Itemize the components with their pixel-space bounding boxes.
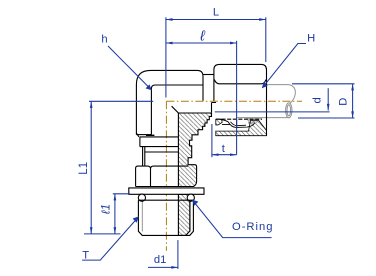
ferrule / sleeve curves [216,119,262,127]
arrowheads [90,18,354,269]
L dim [165,17,167,97]
H arrow [262,82,268,88]
svg-text:ℓ1: ℓ1 [101,204,113,215]
svg-text:ℓ: ℓ [199,29,205,45]
hatched nut band + wedge (horizontal branch lower) [216,119,267,136]
d1 arrow [171,266,178,269]
D arrows [351,84,354,91]
centerline horizontal [166,100,302,102]
d dim [215,111,330,113]
hatched body section right of vertical bore [178,113,211,187]
o-rings [138,194,145,201]
L arrows [166,18,173,21]
l1 arrows [114,194,117,201]
O-Ring arrow [192,200,198,206]
flange [129,188,204,194]
stipple tube wall section [246,118,262,124]
svg-text:D: D [337,98,349,106]
dimension drawing: blue [82,17,354,269]
hex nut vertical branch [136,166,151,186]
svg-text:O-Ring: O-Ring [232,221,273,233]
l1 dim [113,193,130,195]
bore chamfer at corner [172,106,179,113]
svg-text:d1: d1 [154,254,166,266]
svg-text:d: d [311,97,323,103]
svg-text:L1: L1 [78,162,90,175]
counterbore seat [212,103,217,113]
D dim [292,83,355,85]
d arrow [327,104,330,111]
hatched stud wall below flange [178,194,189,235]
svg-text:T: T [82,250,89,262]
tube end face [236,119,238,127]
H leader [263,44,307,88]
L1 dim [89,100,153,102]
stud [138,199,193,201]
h leader [108,46,151,89]
stud thread lines (gray) [142,201,190,232]
L1 arrows [90,101,93,108]
svg-text:H: H [307,32,315,44]
body outline [129,64,267,235]
svg-text:L: L [213,7,219,19]
l arrows [166,42,173,45]
centerline vertical [165,101,167,251]
t arrows [212,153,219,156]
d1 [177,240,179,269]
t dim [211,124,213,157]
svg-text:h: h [101,34,107,46]
T arrow [133,216,139,222]
l dim [166,42,237,44]
h arrow [146,84,152,90]
O-Ring leader [192,200,271,238]
neck + nut horizontal [203,74,214,76]
T leader [82,218,138,261]
body bottom face + washer [136,133,139,137]
tube (gray) [237,85,296,118]
